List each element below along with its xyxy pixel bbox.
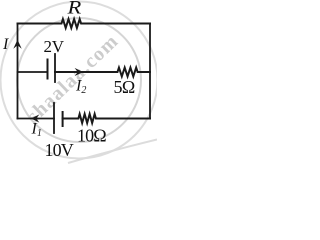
svg-text:R: R	[66, 0, 81, 18]
svg-text:5Ω: 5Ω	[114, 77, 135, 97]
svg-text:I: I	[2, 36, 9, 53]
svg-text:10V: 10V	[45, 140, 74, 160]
svg-text:shaalaa.com: shaalaa.com	[22, 30, 123, 128]
svg-text:2V: 2V	[44, 37, 65, 56]
svg-text:10Ω: 10Ω	[77, 126, 106, 146]
